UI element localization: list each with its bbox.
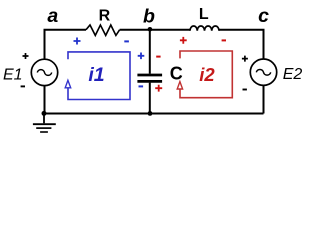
svg-text:a: a — [47, 5, 58, 27]
svg-text:i1: i1 — [88, 64, 104, 86]
svg-text:i2: i2 — [199, 64, 215, 85]
svg-text:E1: E1 — [3, 66, 23, 83]
svg-text:L: L — [199, 6, 209, 23]
svg-text:R: R — [99, 7, 111, 24]
svg-text:b: b — [143, 5, 155, 27]
svg-text:c: c — [258, 5, 269, 27]
svg-text:E2: E2 — [283, 66, 303, 83]
svg-text:C: C — [170, 64, 183, 84]
